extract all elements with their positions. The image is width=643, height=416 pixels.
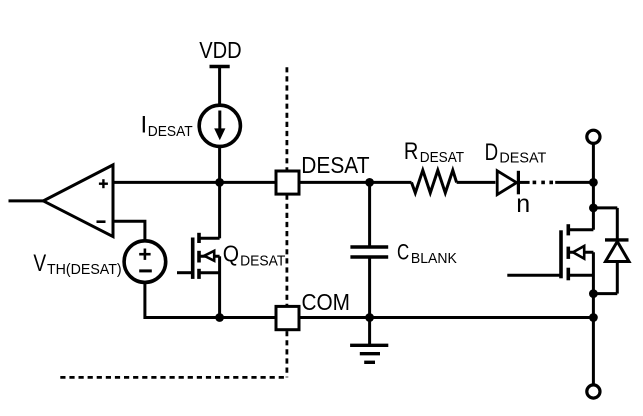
node dot QDESAT source at COM rail [215,313,224,322]
DESAT pin box [276,171,299,194]
svg-text:DESAT: DESAT [420,149,464,166]
svg-text:n: n [516,190,530,218]
wire DESAT box to resistor [299,181,412,184]
bottom terminal [587,385,600,398]
wire drain to body diode [593,206,617,209]
dashed IC boundary vertical line [285,67,288,377]
svg-text:VDD: VDD [199,37,241,63]
ground [368,318,371,346]
top terminal [587,130,600,143]
svg-text:COM: COM [302,289,351,315]
svg-text:BLANK: BLANK [411,250,457,267]
dashed IC boundary bottom horizontal line [60,376,287,379]
svg-text:V: V [33,250,46,277]
COM rail from box to power device [299,316,593,319]
COM pin box [276,306,299,329]
op-amp U1 [43,165,113,237]
transistor QDESAT [177,182,220,317]
voltage source VTH(DESAT) [124,241,166,283]
wire body diode to source [593,292,617,295]
wire terminal to drain [592,143,595,229]
svg-text:D: D [485,139,499,166]
resistor RDESAT [412,170,457,193]
svg-text:I: I [141,111,148,138]
wire stub after diode [518,181,529,184]
wire: -input to VTH source [113,221,145,241]
op-amp output wire [9,199,44,202]
wire: +input / DESAT rail from op-amp to pin box [113,181,276,184]
VDD supply bar [210,65,230,69]
diode DDESAT [497,171,516,195]
node dot body diode top [589,204,598,213]
node dot at current source / DESAT rail [215,178,224,187]
svg-text:DESAT: DESAT [240,252,285,269]
svg-text:DESAT: DESAT [301,152,369,178]
current source IDESAT circle [199,105,240,146]
svg-text:Q: Q [223,241,239,267]
wire dots to collector rail [555,181,593,184]
body diode (anti-parallel) [605,208,629,294]
svg-text:DESAT: DESAT [499,150,546,167]
wire resistor to diode [457,181,496,184]
node dot body diode bottom [589,289,598,298]
svg-text:C: C [397,240,409,265]
node dot capacitor bottom [365,313,374,322]
wire VTH source to COM rail [145,282,276,317]
capacitor CBLANK [368,182,371,247]
node dot capacitor top [365,178,374,187]
svg-text:TH(DESAT): TH(DESAT) [47,261,122,278]
node dot DESAT chain at rail [589,178,598,187]
svg-text:R: R [404,138,419,165]
wire current source to DESAT node [218,146,221,182]
power transistor [507,224,593,385]
dotted series continuation [533,181,537,185]
wire VDD bar to current source [218,67,221,107]
svg-text:DESAT: DESAT [148,123,193,140]
node dot emitter at COM rail [589,313,598,322]
